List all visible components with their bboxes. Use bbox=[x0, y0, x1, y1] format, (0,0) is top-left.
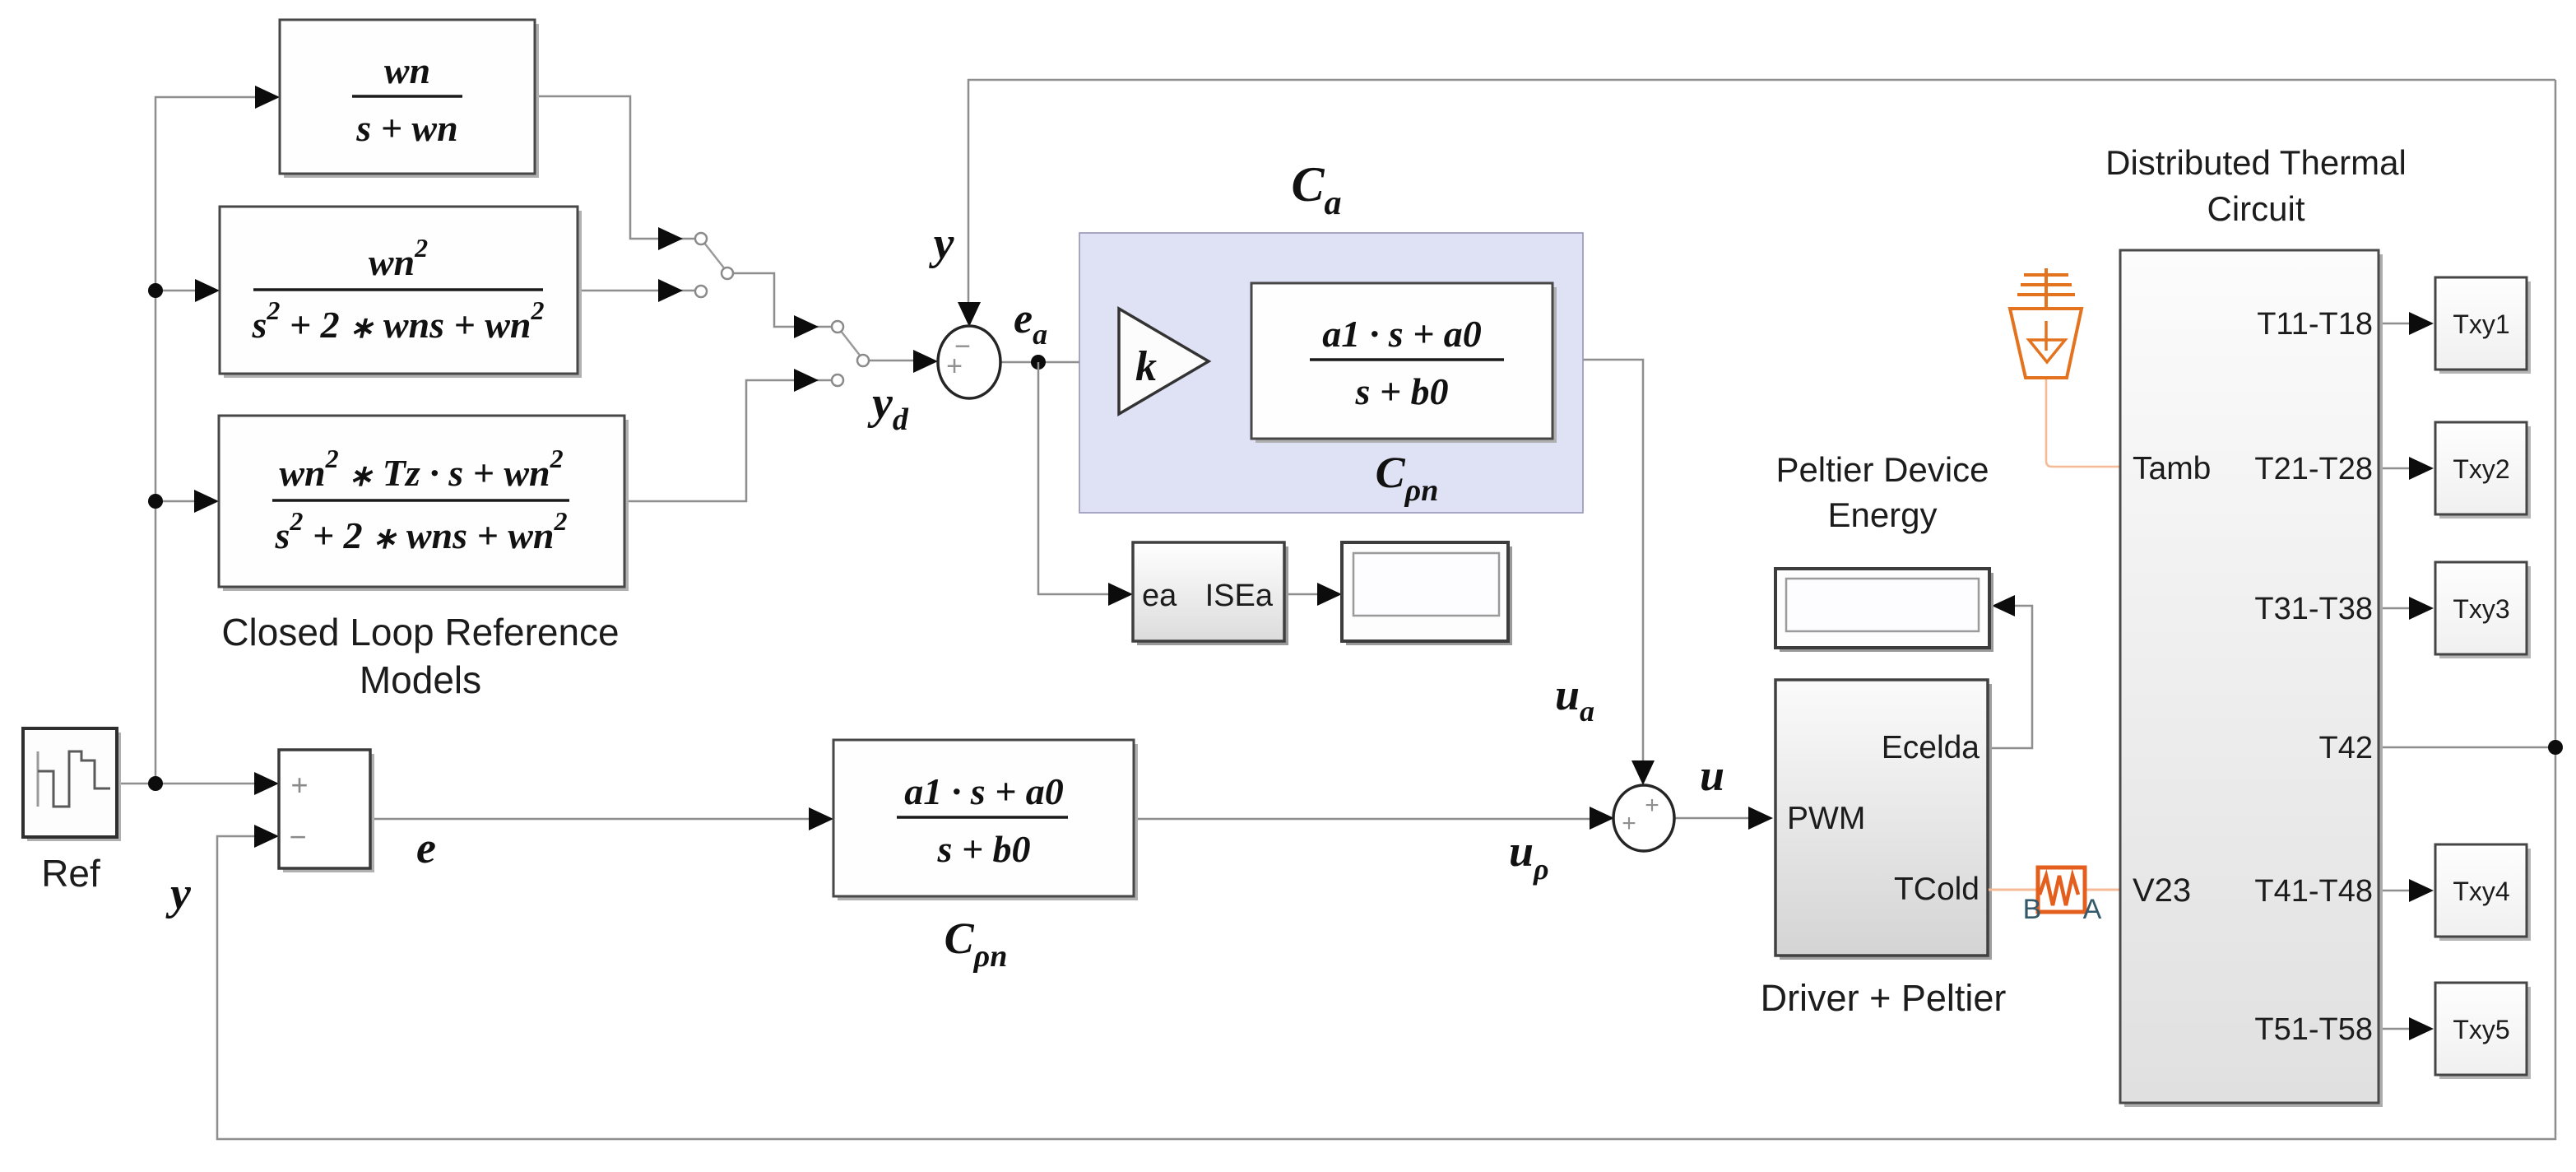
wire: Ref output rail (left vertical bus) bbox=[117, 97, 258, 784]
sum junction: ea = yd - y bbox=[938, 326, 1000, 398]
svg-text:−: − bbox=[289, 820, 306, 853]
svg-text:Txy5: Txy5 bbox=[2453, 1015, 2509, 1044]
block: Ref signal source bbox=[27, 732, 121, 841]
block: Cpn transfer fcn (a1 s + a0)/(s + b0) bbox=[838, 744, 1138, 900]
svg-text:+: + bbox=[1622, 810, 1636, 837]
block: scope display bbox=[1346, 546, 1512, 645]
wire: sum Ea output to gain k bbox=[1000, 361, 1098, 364]
wire: thermal output to Txy4 bbox=[2379, 890, 2411, 892]
svg-text:Distributed Thermal: Distributed Thermal bbox=[2105, 143, 2407, 182]
svg-text:Peltier Device: Peltier Device bbox=[1775, 450, 1989, 489]
wire: ea branch down to ISEa bbox=[1038, 362, 1111, 594]
svg-text:ea: ea bbox=[1142, 579, 1177, 613]
wire: ISEa output to scope bbox=[1284, 593, 1320, 596]
block: Txy4 bbox=[2439, 849, 2531, 941]
svg-text:T41-T48: T41-T48 bbox=[2254, 874, 2373, 909]
svg-text:Ecelda: Ecelda bbox=[1882, 730, 1980, 765]
svg-text:T31-T38: T31-T38 bbox=[2254, 592, 2373, 626]
area: Ca adaptive controller (blue region) bbox=[1079, 233, 1583, 513]
svg-text:Txy4: Txy4 bbox=[2453, 877, 2509, 906]
wire: sum u output to PWM bbox=[1674, 817, 1751, 820]
manual switch 2 bbox=[838, 327, 864, 360]
svg-text:Ref: Ref bbox=[41, 852, 100, 895]
svg-text:TCold: TCold bbox=[1894, 872, 1980, 907]
node: rail junction at Ref output bbox=[148, 776, 163, 791]
svg-text:PWM: PWM bbox=[1787, 801, 1865, 836]
svg-text:T42: T42 bbox=[2319, 731, 2373, 765]
wire: thermal output to Txy5 bbox=[2379, 1028, 2411, 1030]
wire: switch2 output to sum Ea bbox=[868, 360, 915, 362]
icon: Ref step waveform bbox=[37, 751, 39, 807]
wire: thermal output to Txy3 bbox=[2379, 607, 2411, 610]
svg-text:Txy3: Txy3 bbox=[2453, 594, 2509, 624]
svg-text:s + b0: s + b0 bbox=[936, 828, 1030, 870]
svg-text:ISEa: ISEa bbox=[1205, 579, 1274, 613]
wire: sum e output to Cpn transfer fcn bbox=[370, 818, 811, 821]
svg-text:a1 · s + a0: a1 · s + a0 bbox=[1322, 313, 1482, 355]
wire: Ecelda output to energy display bbox=[1989, 606, 2032, 748]
wire: T42 output to loop junction bbox=[2379, 746, 2555, 749]
svg-text:B: B bbox=[2023, 894, 2042, 925]
svg-text:s + b0: s + b0 bbox=[1354, 370, 1448, 412]
block: reference model wn/(s+wn) bbox=[284, 24, 539, 178]
gain k triangle bbox=[1119, 309, 1209, 414]
block: Txy1 bbox=[2439, 281, 2531, 374]
block: ISEa subsystem bbox=[1137, 546, 1288, 645]
block: Txy5 bbox=[2439, 987, 2531, 1079]
wire: wn2 model output to switch1 input2 bbox=[578, 290, 696, 292]
component: thermal resistor (orange) bbox=[2038, 867, 2085, 912]
wire: rail to Tz model input bbox=[155, 500, 198, 503]
svg-text:k: k bbox=[1135, 343, 1157, 390]
svg-text:A: A bbox=[2083, 894, 2102, 925]
svg-text:a1 · s + a0: a1 · s + a0 bbox=[904, 770, 1064, 812]
node: ea branch junction bbox=[1031, 355, 1046, 370]
svg-text:+: + bbox=[290, 768, 308, 802]
svg-text:Models: Models bbox=[360, 658, 481, 701]
svg-text:T11-T18: T11-T18 bbox=[2257, 307, 2373, 342]
svg-text:u: u bbox=[1700, 751, 1724, 800]
orange wire: thermal reference to Tamb bbox=[2046, 379, 2120, 467]
wire: gain k output to Ca transfer fcn bbox=[1209, 360, 1229, 362]
svg-text:V23: V23 bbox=[2133, 872, 2191, 909]
wire: Cpn output to sum u (urho) bbox=[1134, 818, 1592, 821]
svg-text:+: + bbox=[1645, 792, 1659, 819]
orange wire: resistor to V23 bbox=[2086, 889, 2120, 891]
svg-text:s + wn: s + wn bbox=[355, 107, 457, 149]
svg-text:Txy1: Txy1 bbox=[2453, 309, 2509, 339]
block: Driver + Peltier subsystem bbox=[1780, 684, 1992, 960]
sum block: e = Ref - y bbox=[283, 754, 374, 872]
svg-text:Tamb: Tamb bbox=[2133, 451, 2211, 486]
svg-text:Txy2: Txy2 bbox=[2453, 454, 2509, 484]
svg-text:T51-T58: T51-T58 bbox=[2254, 1012, 2373, 1047]
svg-text:e: e bbox=[416, 823, 436, 872]
block: Peltier energy display bbox=[1780, 573, 1993, 652]
svg-text:T21-T28: T21-T28 bbox=[2254, 452, 2373, 486]
wire: switch1 output to switch2 input1 bbox=[732, 273, 833, 327]
svg-text:Driver + Peltier: Driver + Peltier bbox=[1761, 977, 2007, 1019]
svg-text:Closed Loop Reference: Closed Loop Reference bbox=[221, 611, 619, 653]
svg-text:Circuit: Circuit bbox=[2207, 189, 2304, 228]
wire: Tz model output to switch2 input2 bbox=[624, 380, 833, 501]
wire: rail to wn2 model input bbox=[155, 290, 199, 292]
wire: Ca output down to sum u (ua) bbox=[1553, 360, 1643, 761]
svg-text:s2 + 2 ∗ wns + wn2: s2 + 2 ∗ wns + wn2 bbox=[252, 295, 545, 346]
block: Txy2 bbox=[2439, 426, 2531, 519]
wire: wn model output to switch1 input1 bbox=[535, 96, 696, 239]
svg-text:wn2 ∗ Tz · s + wn2: wn2 ∗ Tz · s + wn2 bbox=[279, 444, 563, 494]
orange wire: TCold to resistor bbox=[1989, 889, 2037, 891]
svg-text:s2 + 2 ∗ wns + wn2: s2 + 2 ∗ wns + wn2 bbox=[275, 506, 568, 556]
node: T42 loop junction bbox=[2548, 740, 2563, 755]
block: Distributed Thermal Circuit bbox=[2124, 254, 2383, 1107]
node: rail junction at wn2 input bbox=[148, 283, 163, 298]
block: reference model (wn2*Tz s+wn2)/(s2+2wns+wn2) bbox=[223, 420, 629, 591]
block: Txy3 bbox=[2439, 566, 2531, 658]
block: reference model wn2/(s2+2wns+wn2) bbox=[224, 211, 582, 378]
svg-text:wn: wn bbox=[384, 49, 430, 91]
wire: thermal output to Txy1 bbox=[2379, 323, 2411, 325]
node: rail junction at Tz input bbox=[148, 494, 163, 509]
sum junction: u = ua + urho bbox=[1613, 785, 1674, 851]
block: Ca transfer fcn (a1 s + a0)/(s + b0) bbox=[1256, 287, 1557, 443]
component: thermal reference (orange) bbox=[2010, 268, 2082, 378]
svg-text:Energy: Energy bbox=[1827, 495, 1937, 534]
manual switch 1 bbox=[701, 239, 728, 273]
wire: thermal output to Txy2 bbox=[2379, 467, 2411, 470]
arrowheads on signal wires bbox=[255, 86, 280, 109]
svg-text:+: + bbox=[946, 351, 963, 382]
